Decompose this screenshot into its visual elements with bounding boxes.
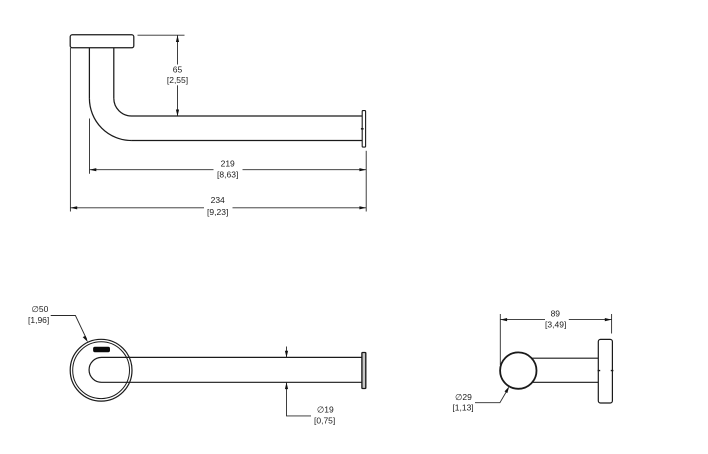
dia19: upper witness line xyxy=(286,347,288,358)
dia50: leader arrow xyxy=(83,336,88,343)
top view: cap centre tick xyxy=(361,128,364,130)
svg-text:65: 65 xyxy=(173,64,183,74)
dia19: up arrow xyxy=(285,382,288,389)
dim89: right arrow xyxy=(605,318,612,321)
top view: bar bottom edge xyxy=(132,140,363,142)
svg-text:∅29: ∅29 xyxy=(455,392,472,402)
dia19: down arrow xyxy=(285,351,288,358)
dim65 text 65 xyxy=(169,64,186,75)
dim234 text [9,23] xyxy=(204,207,233,218)
dim219: left extension line xyxy=(89,119,91,174)
side view: wall plate xyxy=(598,339,612,403)
svg-text:89: 89 xyxy=(551,309,561,319)
front view: bar bottom edge xyxy=(102,381,362,383)
top view: wall flange xyxy=(70,35,134,48)
svg-text:∅19: ∅19 xyxy=(317,405,334,415)
svg-text:[0,75]: [0,75] xyxy=(314,416,335,426)
svg-text:[3,49]: [3,49] xyxy=(545,319,566,329)
svg-text:[1,96]: [1,96] xyxy=(28,315,49,325)
dim234: dimension line xyxy=(70,207,366,209)
front view: screw slot xyxy=(93,347,110,352)
svg-text:[8,63]: [8,63] xyxy=(217,170,238,180)
side view: bar top edge xyxy=(532,357,599,359)
dim89: left extension line xyxy=(499,314,501,365)
dim234: left arrow xyxy=(70,206,77,209)
svg-text:234: 234 xyxy=(211,195,225,205)
top view: bar top edge xyxy=(132,115,363,117)
dim219: dimension line xyxy=(90,169,367,171)
dim219/234: right extension line xyxy=(365,151,367,212)
front view: end cap xyxy=(362,353,366,389)
dim89: right extension line xyxy=(611,314,613,334)
dim219 text [8,63] xyxy=(214,169,243,181)
dia50: leader line xyxy=(51,316,87,340)
front view: bar top edge xyxy=(102,356,362,358)
top view: inner bend xyxy=(114,98,132,116)
side view: bar bottom edge xyxy=(532,381,599,383)
front view: flange inner circle xyxy=(73,342,130,399)
dim234: left extension line xyxy=(69,48,71,212)
front view: flange outer circle xyxy=(70,339,132,401)
dim65: down arrow xyxy=(176,110,179,117)
dim65: up arrow xyxy=(176,35,179,42)
svg-text:[1,13]: [1,13] xyxy=(452,403,473,413)
top view: post left edge xyxy=(88,48,90,99)
top view: end cap xyxy=(362,111,365,148)
dim89: dimension line xyxy=(500,319,611,321)
svg-text:219: 219 xyxy=(221,158,235,168)
front view: bar end semicircle xyxy=(89,357,101,382)
dim65: extension line from flange top xyxy=(138,34,185,36)
dia19: lower leader line xyxy=(287,382,312,416)
top view: post right edge xyxy=(113,48,115,99)
side view: plate centre ticks xyxy=(598,370,614,372)
dim219: right arrow xyxy=(359,168,366,171)
dia29: leader arrow xyxy=(505,386,510,393)
dim89 text [3,49] xyxy=(545,319,569,331)
dim65: dimension line xyxy=(177,35,179,116)
top view: outer bend xyxy=(89,98,131,140)
svg-text:[9,23]: [9,23] xyxy=(207,207,228,217)
side view: ball end circle xyxy=(500,352,536,388)
dim89: left arrow xyxy=(500,318,507,321)
dim219: left arrow xyxy=(90,168,97,171)
svg-text:∅50: ∅50 xyxy=(32,304,49,314)
dim65 text [2,55] xyxy=(166,75,189,86)
svg-text:[2,55]: [2,55] xyxy=(167,75,188,85)
dim234: right arrow xyxy=(359,206,366,209)
dia29: leader line xyxy=(475,389,508,403)
